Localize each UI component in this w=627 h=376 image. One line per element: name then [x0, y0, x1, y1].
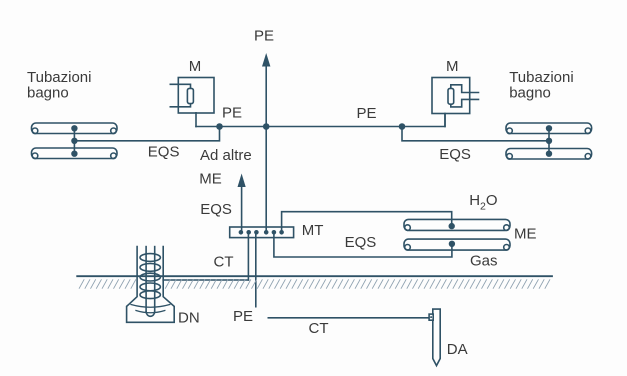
node: left pipe top bond — [72, 126, 77, 131]
busbar MT (main earthing terminal) — [230, 227, 294, 238]
node: MT terminal 2 — [247, 231, 250, 234]
node: MT terminal 3 — [255, 231, 258, 234]
svg-text:DA: DA — [447, 341, 468, 358]
svg-text:bagno: bagno — [27, 84, 69, 101]
pipe: water pipe H2O — [404, 219, 510, 230]
wire: CT earthing conductor MT down — [247, 232, 249, 280]
wire: bonding jumper between right pipes — [548, 128, 550, 153]
node: PE junction left — [217, 124, 222, 129]
svg-text:Gas: Gas — [470, 253, 498, 270]
wire: CT earthing conductor to driven rod — [268, 317, 429, 319]
svg-text:CT: CT — [309, 320, 329, 337]
node: MT terminal 5 — [272, 231, 275, 234]
appliance U1 (left, M) — [170, 78, 214, 114]
svg-text:M: M — [446, 58, 459, 75]
svg-text:DN: DN — [178, 309, 200, 326]
node: left pipe bottom bond — [72, 151, 77, 156]
svg-text:EQS: EQS — [200, 201, 232, 218]
pipe: left bathroom pipe bottom — [32, 148, 118, 159]
svg-text:CT: CT — [214, 254, 234, 271]
wire: EQS conductor to other extraneous parts (arrow) — [241, 185, 243, 232]
wire: EQS conductor MT to water pipe — [282, 212, 452, 233]
wire: EQS conductor MT to gas pipe — [274, 232, 452, 257]
pipe: left bathroom pipe top — [32, 123, 118, 134]
label: Tubazioni bagno (left) — [27, 69, 91, 102]
svg-text:bagno: bagno — [509, 84, 551, 101]
wire: EQS left supplementary bonding conductor — [74, 127, 219, 141]
arrowhead: PE riser — [262, 53, 270, 67]
wire: CT earthing conductor to foundation electrode — [163, 279, 248, 281]
electrode DA: driven earth rod — [429, 309, 440, 366]
hatching: soil below ground line — [79, 279, 550, 288]
svg-text:EQS: EQS — [148, 143, 180, 160]
svg-text:Tubazioni: Tubazioni — [27, 69, 91, 86]
appliance U2 (right, M) — [432, 78, 479, 114]
node: PE junction centre — [264, 124, 269, 129]
pipe: right bathroom pipe bottom — [506, 149, 592, 160]
node: right pipe top bond — [547, 126, 552, 131]
pipe: gas pipe — [404, 239, 510, 250]
node: MT terminal 1 — [239, 231, 242, 234]
svg-text:PE: PE — [254, 28, 274, 45]
pipe: right bathroom pipe top — [506, 123, 592, 134]
node: left pipe middle bond — [72, 138, 77, 143]
svg-text:MT: MT — [302, 222, 324, 239]
svg-text:M: M — [189, 58, 202, 75]
node: right pipe bottom bond — [547, 151, 552, 156]
node: MT terminal 6 — [280, 231, 283, 234]
wire: PE riser with arrow to supply — [265, 64, 267, 232]
ground: soil surface line — [77, 275, 552, 277]
label: Ad altre ME — [199, 147, 251, 187]
node: MT terminal 4 — [265, 231, 268, 234]
svg-text:Ad altre: Ad altre — [200, 147, 252, 164]
node: right pipe middle bond — [547, 138, 552, 143]
wire: bonding jumper between left pipes — [73, 128, 75, 153]
label: Tubazioni bagno (right) — [509, 69, 573, 102]
arrowhead: EQS to other ME — [238, 174, 246, 188]
electrode DN: foundation earth electrode — [127, 247, 175, 323]
wire: left appliance PE lead — [195, 113, 197, 127]
wire: right appliance PE lead — [444, 114, 446, 127]
wire: PE earthing conductor MT down to rod — [255, 232, 257, 306]
svg-text:ME: ME — [514, 226, 537, 243]
wire: main PE bus — [196, 114, 445, 127]
node: gas pipe bond — [450, 241, 455, 246]
svg-text:EQS: EQS — [439, 146, 471, 163]
svg-text:PE: PE — [357, 105, 377, 122]
svg-text:PE: PE — [222, 105, 242, 122]
svg-text:ME: ME — [199, 170, 222, 187]
svg-text:PE: PE — [233, 308, 253, 325]
node: water pipe bond — [449, 224, 454, 229]
svg-text:EQS: EQS — [345, 234, 377, 251]
node: PE junction right — [400, 124, 405, 129]
wire: EQS right supplementary bonding conductor — [402, 127, 549, 141]
svg-text:Tubazioni: Tubazioni — [509, 69, 573, 86]
